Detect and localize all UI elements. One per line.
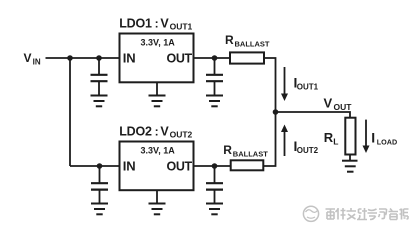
ground under C2 [206,96,223,107]
resistor R_BALLAST1 [230,52,264,63]
svg-text:OUT1: OUT1 [170,22,193,32]
svg-text:LDO1: LDO1 [119,16,152,30]
op-amp U2 LDO2 box [120,142,194,191]
wire output node to RL [276,112,351,118]
wire VIN to LDO1 IN [46,57,120,59]
ground under C1 [91,96,108,107]
node junction dot D (input cap 2) [97,163,103,169]
LDO2 value label 3.3V, 1A [141,145,176,155]
wire LDO2 row input [70,165,120,167]
svg-text:IN: IN [123,159,136,174]
node output junction dot [273,109,279,115]
svg-text:OUT: OUT [167,52,193,66]
svg-text:OUT2: OUT2 [297,146,319,155]
svg-text:OUT2: OUT2 [170,130,193,140]
svg-text::: : [155,124,159,138]
LDO2 pin label IN [123,159,136,174]
wire LDO1 OUT to R_BALLAST1 [194,57,231,59]
capacitor C2 (output cap of LDO1) [206,58,223,96]
ground under C4 [206,204,223,215]
watermark text 硬件之路学习笔记 [326,208,409,220]
svg-text:I: I [371,130,375,146]
svg-text:R: R [223,143,232,157]
LDO1 value label 3.3V, 1A [141,37,176,47]
ground of LDO1 [149,82,166,106]
svg-text:BALLAST: BALLAST [233,150,268,159]
wire R_BALLAST1 to output node [264,58,276,112]
svg-text:OUT: OUT [167,160,193,174]
capacitor C1 (input cap of LDO1) [91,58,108,96]
wire R_BALLAST2 up to output node [263,112,275,166]
watermark logo [303,206,318,221]
LDO2 pin label OUT [167,160,193,174]
svg-text:V: V [160,16,169,30]
IOUT2 label [294,138,319,155]
svg-text:L: L [333,136,338,146]
svg-text:IN: IN [123,51,136,66]
resistor R_BALLAST2 [231,160,264,170]
current arrow IOUT2 [281,125,288,157]
ground of RL [342,155,358,172]
RL label [324,130,339,146]
resistor RL (load) [345,118,355,155]
svg-text::: : [155,16,159,30]
node junction dot C (output cap 1) [212,55,218,61]
ground of LDO2 [149,190,166,214]
capacitor C4 (output cap of LDO2) [206,166,223,204]
ILOAD label [371,130,397,147]
current arrow IOUT1 [281,67,288,101]
svg-text:R: R [324,130,334,145]
svg-text:V: V [24,51,32,65]
capacitor C3 (input cap of LDO2) [91,166,108,204]
LDO1 title label [119,16,192,31]
svg-text:R: R [225,33,234,47]
LDO1 pin label OUT [167,52,193,66]
LDO1 pin label IN [123,51,136,66]
wire LDO2 OUT to R_BALLAST2 [194,165,231,167]
R_BALLAST2 label [223,143,268,158]
svg-text:V: V [324,96,333,111]
node junction dot B (input cap 1) [96,55,102,61]
IOUT1 label [294,74,319,91]
node junction dot A (to LDO2 riser) [67,55,73,61]
svg-text:LDO2: LDO2 [119,124,152,138]
R_BALLAST1 label [225,33,270,48]
wire riser from node A down to LDO2 row [69,58,71,166]
svg-text:LOAD: LOAD [377,137,397,146]
node junction dot E (output cap 2) [212,163,218,169]
LDO2 title label [119,124,192,139]
svg-text:BALLAST: BALLAST [235,39,270,48]
node VOUT label [324,96,353,113]
svg-text:IN: IN [33,58,41,67]
svg-text:3.3V, 1A: 3.3V, 1A [141,37,176,47]
current arrow ILOAD [363,120,370,153]
svg-text:OUT1: OUT1 [297,82,319,91]
svg-text:OUT: OUT [334,102,353,112]
svg-text:3.3V, 1A: 3.3V, 1A [141,145,176,155]
ground under C3 [91,204,108,215]
op-amp U1 LDO1 box [120,34,194,83]
svg-text:V: V [160,124,169,138]
node VIN label [24,51,41,66]
